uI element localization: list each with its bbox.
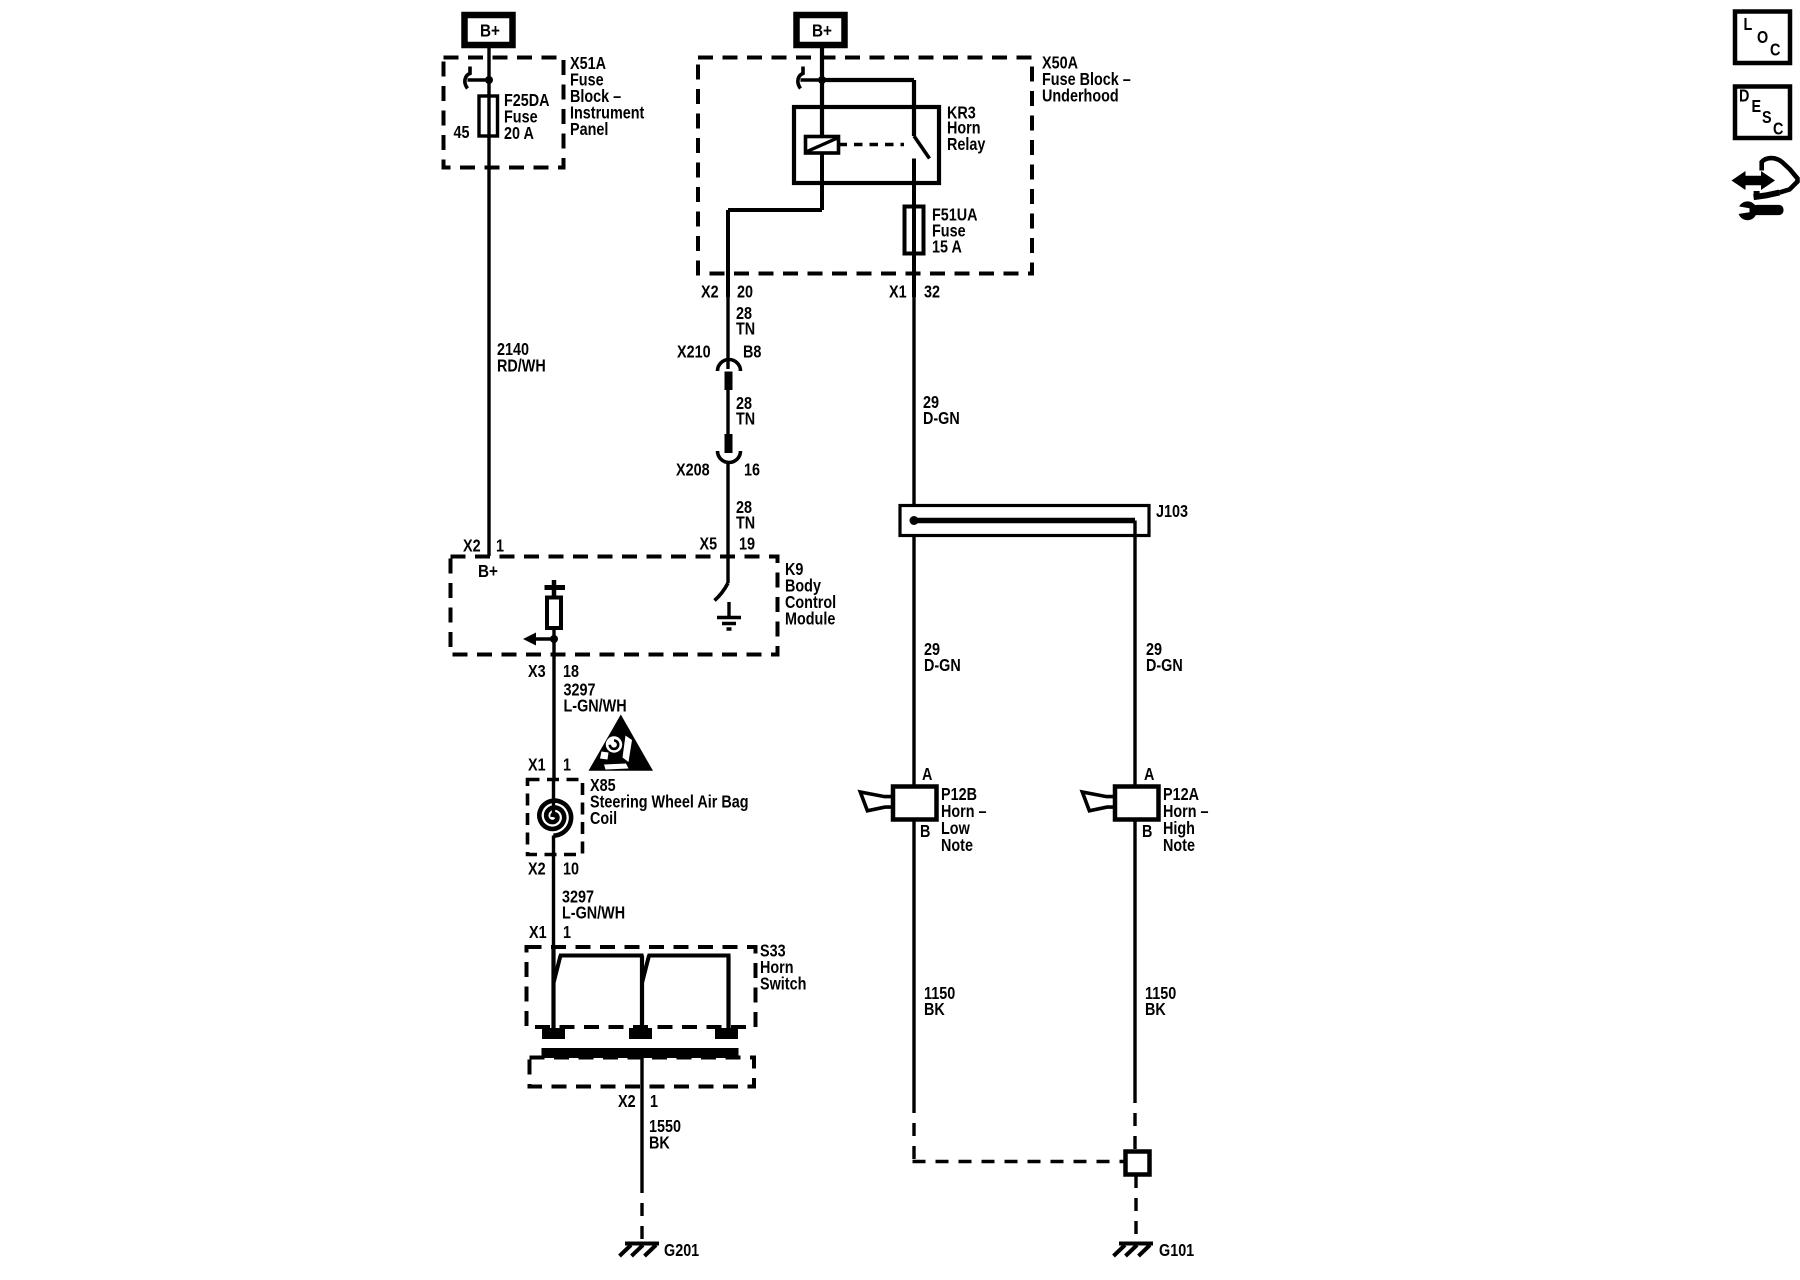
svg-text:X2: X2: [463, 536, 481, 556]
svg-text:BK: BK: [1145, 1000, 1166, 1020]
svg-text:RD/WH: RD/WH: [497, 356, 546, 376]
power feed B+ (left): [465, 15, 513, 45]
svg-text:B+: B+: [478, 561, 498, 581]
wire J103 to horn low note: [912, 536, 915, 787]
svg-text:1: 1: [563, 923, 571, 943]
pin label X3 18: [528, 662, 579, 682]
air bag coil X85 dashed box: [528, 780, 583, 855]
svg-text:X1: X1: [889, 282, 907, 302]
svg-text:E: E: [1752, 97, 1762, 117]
wire junction to G101 (dashed): [1134, 1175, 1137, 1240]
svg-text:TN: TN: [736, 409, 755, 429]
fuse clip terminal (right): [798, 67, 826, 89]
relay switch blade: [914, 136, 930, 159]
wire label 3297 L-GN/WH (lower): [562, 887, 625, 923]
svg-text:S: S: [1762, 108, 1772, 128]
switch contact pads: [542, 1028, 738, 1039]
svg-text:B+: B+: [480, 20, 500, 40]
label X210 B8: [677, 342, 761, 362]
contact plate bus bar: [542, 1048, 739, 1058]
svg-text:BK: BK: [649, 1133, 670, 1153]
pin label X2 1 (switch out): [618, 1092, 658, 1112]
svg-text:TN: TN: [736, 319, 755, 339]
LOC navigation box: [1735, 12, 1790, 64]
pin label X1 32: [889, 282, 940, 302]
label S33 Horn Switch: [760, 941, 806, 994]
svg-text:O: O: [1757, 28, 1768, 48]
wire horn low note to splice (dashed): [913, 1100, 1126, 1162]
fuse F25DA 20A: [479, 96, 498, 136]
pin label X5 19: [700, 534, 756, 554]
svg-text:D: D: [1739, 86, 1750, 106]
label F25DA Fuse 20 A: [504, 91, 550, 144]
svg-text:X210: X210: [677, 342, 711, 362]
svg-text:18: 18: [563, 662, 579, 682]
relay coil: [806, 137, 839, 154]
svg-text:G201: G201: [664, 1241, 699, 1261]
svg-text:X3: X3: [528, 662, 546, 682]
fuse F51UA 15A: [905, 207, 924, 254]
svg-text:D-GN: D-GN: [1146, 656, 1183, 676]
svg-text:Module: Module: [785, 609, 835, 629]
wire to G201 (dashed): [640, 1180, 643, 1240]
label X51A Fuse Block Instrument Panel: [570, 54, 645, 140]
svg-text:A: A: [1144, 765, 1155, 785]
wire X1-32 to J103: [912, 297, 915, 505]
svg-text:L: L: [1744, 15, 1753, 35]
wire BCM X3-18 to air bag coil: [552, 655, 555, 779]
svg-text:20 A: 20 A: [504, 124, 534, 144]
horn P12A connector box: [1115, 787, 1159, 820]
label KR3 Horn Relay: [947, 103, 985, 154]
wire J103 to horn high note: [1133, 521, 1136, 788]
horn relay KR3 box: [794, 107, 939, 183]
navigation arrows icon: [1732, 158, 1798, 198]
svg-text:B8: B8: [743, 342, 761, 362]
wire branch to relay switch: [822, 80, 914, 136]
svg-text:X1: X1: [528, 755, 546, 775]
svg-text:B+: B+: [812, 20, 832, 40]
horn relay driver (internal element): [545, 580, 566, 655]
svg-text:C: C: [1773, 119, 1784, 139]
pin label X2 10 (coil out): [528, 859, 579, 879]
wire switch to ground (solid): [640, 1058, 643, 1180]
svg-text:X1: X1: [529, 923, 547, 943]
label X208 16: [676, 460, 760, 480]
horn switch lower dashed box: [530, 1058, 755, 1087]
BCM K9 dashed box: [451, 557, 778, 655]
label P12A Horn High Note: [1163, 785, 1209, 856]
wire label 1150 BK (high note): [1145, 984, 1176, 1020]
horn P12B connector box: [893, 787, 937, 820]
wire label 28 TN (upper): [736, 304, 755, 339]
svg-text:16: 16: [744, 460, 760, 480]
wire horn high note to splice: [1133, 818, 1136, 1090]
svg-text:15 A: 15 A: [932, 237, 962, 257]
air bag warning triangle: [589, 715, 654, 771]
svg-text:J103: J103: [1156, 502, 1188, 522]
wire label 1550 BK: [649, 1117, 681, 1153]
DESC navigation box: [1735, 86, 1790, 139]
label K9 Body Control Module: [785, 560, 836, 629]
wire label 2140 RD/WH: [497, 340, 546, 376]
pin label X1 1 (coil in): [528, 755, 571, 775]
svg-text:L-GN/WH: L-GN/WH: [564, 696, 627, 716]
wire X210 to X208: [726, 390, 729, 436]
wire X2-20 to connector X210: [726, 297, 729, 369]
label X50A Fuse Block Underhood: [1042, 53, 1131, 106]
svg-text:19: 19: [739, 534, 755, 554]
wire horn low note B to splice (solid): [912, 818, 915, 1100]
svg-text:B: B: [920, 822, 931, 842]
BCM internal switch to ground: [715, 583, 730, 616]
pin label X2 20: [701, 282, 753, 302]
horn high note icon: [1082, 792, 1115, 811]
wire through coil: [552, 779, 555, 817]
fuse block X51A dashed box: [444, 58, 564, 168]
svg-text:C: C: [1770, 40, 1781, 60]
svg-text:45: 45: [454, 123, 470, 143]
connector X208 pin 16: [718, 434, 741, 463]
wire label 29 D-GN (low note): [924, 640, 961, 676]
svg-text:D-GN: D-GN: [923, 409, 960, 429]
connector X210 pin B8: [718, 360, 741, 390]
svg-text:Relay: Relay: [947, 135, 985, 155]
horn low note icon: [860, 792, 893, 811]
wire label 28 TN (lower): [736, 498, 755, 533]
svg-text:X2: X2: [701, 282, 719, 302]
svg-text:X5: X5: [700, 534, 718, 554]
wire X208 to BCM X5-19: [726, 463, 729, 584]
svg-text:1: 1: [650, 1092, 658, 1112]
svg-text:D-GN: D-GN: [924, 656, 961, 676]
coil spiral symbol: [539, 801, 571, 836]
svg-text:10: 10: [563, 859, 579, 879]
ground G201: [620, 1244, 660, 1257]
output arrow inside BCM: [523, 633, 558, 646]
wire coil to X2-20: [728, 153, 822, 297]
svg-text:G101: G101: [1159, 1241, 1194, 1261]
svg-text:X2: X2: [618, 1092, 636, 1112]
relay linkage (dashed): [839, 143, 905, 146]
svg-text:Note: Note: [1163, 836, 1195, 856]
fuse block X50A dashed box: [698, 58, 1032, 274]
ground symbol inside BCM: [717, 618, 741, 630]
wire label 28 TN (middle): [736, 394, 755, 429]
power feed B+ (right): [797, 15, 845, 45]
svg-text:Underhood: Underhood: [1042, 86, 1119, 106]
wire label 3297 L-GN/WH (upper): [564, 680, 627, 716]
svg-text:TN: TN: [736, 513, 755, 533]
label X85 Steering Wheel Air Bag Coil: [590, 776, 749, 829]
svg-text:1: 1: [563, 755, 571, 775]
splice/ground junction box: [1126, 1152, 1150, 1175]
svg-text:L-GN/WH: L-GN/WH: [562, 903, 625, 923]
splice pack J103: [900, 506, 1149, 536]
svg-text:Note: Note: [941, 836, 973, 856]
wire B+ to relay coil: [820, 48, 824, 136]
switch blade bars: [554, 956, 731, 984]
label F51UA Fuse 15 A: [932, 205, 978, 257]
wire B+ to BCM X2-1: [487, 48, 490, 556]
label P12B Horn Low Note: [941, 785, 987, 856]
wire label 29 D-GN (upper): [923, 393, 960, 429]
wire label 29 D-GN (high note): [1146, 640, 1183, 676]
svg-text:20: 20: [737, 282, 753, 302]
ground G101: [1114, 1244, 1154, 1257]
svg-text:Panel: Panel: [570, 120, 608, 140]
svg-text:X208: X208: [676, 460, 710, 480]
pin label X1 1 (horn switch in): [529, 923, 571, 943]
svg-text:X2: X2: [528, 859, 546, 879]
wire label 1150 BK (low note): [924, 984, 955, 1020]
svg-text:A: A: [922, 765, 933, 785]
svg-text:B: B: [1142, 822, 1153, 842]
svg-text:Switch: Switch: [760, 974, 806, 994]
svg-text:Coil: Coil: [590, 809, 617, 829]
wrench icon: [1737, 201, 1784, 220]
svg-text:1: 1: [496, 536, 504, 556]
svg-text:32: 32: [924, 282, 940, 302]
svg-text:BK: BK: [924, 1000, 945, 1020]
fuse clip terminal (left): [465, 67, 493, 89]
horn switch S33 dashed box: [527, 947, 756, 1027]
wire relay switch through fuse to X1-32: [912, 159, 916, 298]
pin label X2 1 (BCM input): [463, 536, 504, 556]
switch contact droppers: [554, 947, 729, 1030]
